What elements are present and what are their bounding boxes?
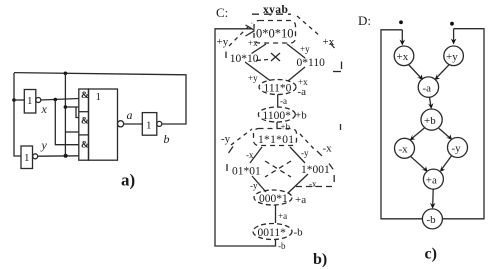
node -a — [418, 77, 438, 97]
svg-text:c): c) — [425, 246, 437, 263]
svg-text:0*0*10: 0*0*10 — [256, 27, 294, 41]
inverter NOT-y — [21, 146, 38, 169]
svg-text:a): a) — [121, 171, 135, 190]
dashes around -x outer — [317, 151, 334, 184]
dash right margin — [340, 124, 342, 133]
svg-text:-b: -b — [278, 241, 286, 251]
svg-text:&: & — [81, 91, 89, 101]
svg-text:D:: D: — [358, 13, 371, 28]
svg-text:+b: +b — [424, 115, 436, 127]
node +y — [444, 46, 464, 66]
state ellipse 0011* — [253, 224, 292, 240]
state ellipse 1100* — [258, 107, 295, 122]
wire gate1 input stub — [65, 106, 79, 108]
arc +a to -b — [430, 189, 436, 209]
node +x — [394, 46, 414, 66]
svg-text:-a: -a — [280, 96, 287, 106]
svg-text:+a: +a — [426, 175, 437, 187]
token left — [399, 20, 403, 24]
arc -a to +b — [428, 97, 434, 109]
node -y — [448, 138, 468, 158]
svg-text:a: a — [127, 108, 133, 122]
svg-text:-y: -y — [250, 181, 258, 191]
wire y to gate2 — [65, 131, 79, 133]
wire top feedback rail — [14, 73, 186, 124]
svg-text:10*10: 10*10 — [230, 53, 259, 65]
wire left rail — [14, 73, 21, 156]
dash left margin — [225, 52, 227, 59]
middle dashed cross — [265, 161, 291, 177]
wire x to gate3 — [55, 100, 79, 145]
svg-text:+x: +x — [397, 51, 409, 63]
node -x — [395, 138, 415, 158]
svg-text:-y: -y — [301, 148, 309, 158]
AND gate column — [79, 89, 89, 160]
token right — [450, 22, 454, 26]
arc +b to -y — [439, 128, 452, 140]
arc +x to -a — [409, 65, 423, 81]
junction y output — [64, 154, 68, 158]
edge box to 0*110 — [287, 44, 305, 58]
node +b — [421, 109, 442, 130]
svg-text:-a: -a — [298, 86, 307, 98]
state box 1*1*01 — [254, 129, 297, 146]
svg-text:-x: -x — [323, 143, 333, 155]
edge 1100* to 1*1*01 — [276, 122, 278, 129]
output inversion bubble — [118, 121, 124, 127]
svg-text:1: 1 — [24, 152, 30, 164]
svg-text:C:: C: — [216, 5, 228, 20]
svg-text:+b: +b — [295, 110, 307, 122]
xyab underline — [252, 13, 291, 15]
dashes below +x — [330, 43, 342, 72]
state box 0*0*10 — [254, 21, 296, 44]
loop arrow rectangle — [215, 29, 276, 246]
right feedback rail — [443, 29, 484, 219]
edge 1*1*01 to 01*01 — [250, 147, 262, 163]
svg-text:-x: -x — [309, 179, 317, 189]
svg-text:1: 1 — [96, 91, 102, 103]
dashed stub right of -x — [296, 186, 334, 188]
wire x output — [41, 99, 79, 101]
wire feedback vertical — [64, 73, 66, 156]
junction feedback — [64, 105, 68, 109]
svg-text:-b: -b — [294, 227, 304, 239]
arrow into +y — [451, 29, 457, 45]
svg-text:1100*: 1100* — [263, 110, 292, 122]
wire NOT-x input — [14, 99, 24, 101]
dash left margin lower — [226, 164, 228, 174]
arc -y to +a — [440, 155, 452, 171]
edge 111*0 to 1100* — [277, 95, 279, 108]
svg-text:+y: +y — [248, 73, 258, 83]
svg-text:0*110: 0*110 — [297, 57, 326, 69]
arc +y to -a — [435, 65, 449, 80]
OR gate box — [89, 89, 118, 160]
inverter NOT-b — [142, 113, 162, 136]
svg-text:+y: +y — [300, 44, 310, 54]
svg-text:1: 1 — [27, 95, 33, 107]
dash 10*10 to cross — [256, 60, 268, 61]
svg-text:0011*: 0011* — [258, 227, 287, 239]
edge 0*110 to 111*0 — [288, 67, 305, 81]
node +a — [423, 169, 443, 189]
svg-text:-x: -x — [399, 144, 409, 156]
svg-text:-b: -b — [427, 214, 437, 226]
svg-text:+a: +a — [295, 194, 306, 206]
svg-text:+b: +b — [281, 122, 291, 132]
svg-text:b: b — [164, 132, 170, 146]
svg-text:01*01: 01*01 — [232, 166, 261, 178]
svg-text:+a: +a — [278, 211, 287, 221]
wire y output — [38, 155, 79, 157]
loop arrowhead — [246, 25, 255, 36]
dashed edge -y to box — [231, 129, 252, 145]
svg-text:111*0: 111*0 — [264, 83, 292, 95]
dashed edge box to +x — [297, 16, 320, 36]
svg-text:-x: -x — [246, 150, 254, 160]
cross mark — [271, 53, 280, 61]
wire a — [124, 123, 143, 125]
junction top rail — [64, 72, 68, 76]
dash below -y — [229, 147, 234, 154]
edge 01*01 to 000*1 — [252, 176, 266, 192]
edge 1*1*01 to 1*001 — [290, 147, 305, 163]
wire gate2 input jog — [76, 107, 79, 118]
arrow into +x — [400, 30, 406, 46]
svg-text:&: & — [81, 116, 89, 126]
svg-text:000*1: 000*1 — [259, 193, 288, 205]
svg-text:x: x — [41, 102, 48, 116]
svg-text:-y: -y — [452, 143, 462, 155]
state ellipse 111*0 — [259, 80, 296, 95]
dashed edge box to 1*001 — [300, 134, 314, 149]
svg-text:-a: -a — [423, 83, 432, 95]
left feedback rail — [381, 30, 422, 219]
svg-text:+y: +y — [217, 36, 229, 48]
edge 000*1 to 0011* — [275, 205, 277, 223]
svg-text:+y: +y — [446, 51, 458, 63]
dashed edge +y to box — [229, 23, 252, 46]
state ellipse 000*1 — [254, 190, 292, 205]
svg-text:1: 1 — [146, 120, 152, 132]
node -b — [422, 209, 442, 229]
svg-text:&: & — [81, 140, 89, 150]
arc +b to -x — [410, 128, 425, 140]
svg-text:b): b) — [313, 251, 327, 268]
svg-text:+x: +x — [248, 38, 258, 48]
arc -x to +a — [411, 156, 428, 172]
junction x output — [54, 98, 58, 102]
edge 1*001 to 000*1 — [288, 174, 308, 193]
edge box to 10*10 — [252, 44, 267, 54]
junction left rail x-input — [12, 98, 16, 102]
edge 10*10 to 111*0 — [245, 62, 270, 81]
svg-text:1*001: 1*001 — [301, 164, 330, 176]
inverter NOT-x — [24, 90, 41, 114]
svg-text:-y: -y — [221, 133, 231, 145]
svg-text:y: y — [41, 138, 48, 152]
svg-text:1*1*01: 1*1*01 — [258, 134, 294, 146]
